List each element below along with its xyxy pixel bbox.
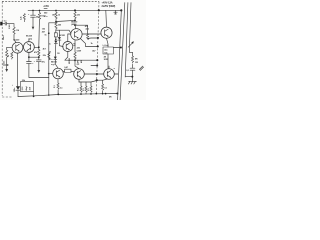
- node Q2 emitter: [28, 52, 30, 58]
- ref label Q7: [71, 20, 78, 26]
- transistor Q1: [7, 42, 23, 53]
- border bottom dashed stub: [2, 96, 12, 98]
- wire Q3 emitter: [65, 52, 68, 61]
- wire output emitter manifold: [79, 81, 97, 83]
- transistor Q5: [74, 60, 85, 82]
- node A: [74, 20, 76, 22]
- svg-text:BC239: BC239: [13, 40, 20, 42]
- value label 4R rotated: [80, 60, 83, 63]
- ref label Q1: [13, 40, 20, 42]
- svg-text:BD132: BD132: [69, 57, 71, 64]
- capacitor C3 electrolytic: [22, 57, 49, 82]
- arrow feedback in: [3, 64, 9, 66]
- capacitor C7: [34, 57, 46, 73]
- node B: [74, 24, 76, 26]
- node rail-R22: [80, 93, 82, 95]
- value label R7 group: [43, 48, 54, 61]
- resistor R1: [13, 24, 20, 36]
- bus line V1: [118, 10, 122, 100]
- svg-text:Wurf.: Wurf.: [2, 35, 5, 40]
- wire Q5 to Q6 base: [84, 73, 103, 75]
- label below box: [104, 56, 109, 61]
- wire ground rail bottom: [18, 94, 117, 97]
- wire Q6 emitter: [97, 79, 108, 80]
- value label D3: [12, 84, 16, 92]
- node rail-bus2: [116, 93, 118, 95]
- label above box: [103, 45, 110, 47]
- node rail-R21: [57, 94, 59, 96]
- trimmer P2: [54, 33, 57, 40]
- transistor Q4: [53, 68, 64, 83]
- resistor R10: [87, 34, 94, 46]
- ref label Q4: [51, 62, 58, 67]
- value label Q5 top: [77, 64, 81, 66]
- node R7-Q4base: [48, 73, 50, 75]
- terminal dot P73: [96, 73, 98, 75]
- wire input to Q1: [14, 36, 16, 43]
- net label +UB: [43, 6, 49, 8]
- wire node B to R10: [75, 25, 88, 33]
- diode D1: [58, 30, 63, 46]
- resistor R12: [74, 10, 81, 19]
- wire bias node to VAS: [56, 20, 75, 21]
- wire R9 to Q7 base: [56, 30, 71, 33]
- value label R3 rotated: [8, 52, 13, 59]
- ground chassis: [128, 81, 136, 84]
- value label cluster mid: [42, 29, 48, 37]
- capacitor C20: [126, 64, 135, 81]
- ref label Q2: [26, 36, 33, 41]
- ref label Q6: [114, 68, 116, 70]
- diode D3: [16, 86, 20, 96]
- resistor R7: [48, 53, 50, 59]
- node rail-R4: [39, 10, 41, 12]
- svg-text:3,5M: 3,5M: [9, 24, 11, 29]
- terminal dot P60: [96, 59, 98, 61]
- bus line V3: [125, 3, 128, 77]
- node R4 junction: [38, 46, 40, 48]
- node R7-rail: [48, 94, 50, 96]
- relay box K1: [103, 47, 113, 54]
- terminal dot P65: [91, 64, 98, 66]
- wire Q7 emitter to P46: [81, 39, 98, 47]
- bus line V2: [120, 3, 125, 100]
- resistor R31: [131, 56, 138, 64]
- resistor R4: [38, 10, 45, 20]
- capacitor C2 electrolytic: [28, 10, 40, 29]
- bus line V4: [129, 3, 131, 53]
- wire chain top: [129, 52, 132, 56]
- svg-text:o.gl.: o.gl.: [51, 64, 55, 66]
- wire box to Q6: [107, 54, 109, 69]
- terminal dot P80: [96, 79, 98, 81]
- terminal dot rail-shield: [98, 9, 100, 11]
- value label 47k: [85, 25, 90, 30]
- wire Q1 emitter down: [17, 53, 19, 86]
- shield boundary dashed vertical: [96, 2, 99, 94]
- node fb-junction: [48, 32, 50, 34]
- resistor R24: [88, 82, 92, 94]
- transistor Q7: [71, 25, 101, 40]
- resistor R23: [83, 82, 87, 94]
- value label 4k7b: [92, 50, 96, 53]
- wire Q2e to R6 node: [29, 56, 40, 58]
- value label 3,5M rotated: [9, 24, 11, 29]
- arrow bus tap: [128, 41, 134, 47]
- speaker terminal arrow: [139, 66, 143, 70]
- resistor R14: [74, 40, 76, 59]
- wire box to bus: [113, 47, 122, 49]
- svg-text:1M: 1M: [16, 30, 19, 32]
- svg-text:L.Celo: L.Celo: [103, 45, 110, 47]
- value label R14: [77, 47, 82, 52]
- transistor Q6: [104, 66, 118, 79]
- border top dashed: [2, 0, 99, 2]
- transistor Q2: [24, 39, 39, 53]
- node rail-C2: [32, 10, 34, 12]
- value label supply rating: [102, 1, 116, 8]
- svg-text:2x25V (50W): 2x25V (50W): [102, 5, 116, 8]
- resistor R3: [5, 47, 8, 72]
- value label edge rotated: [2, 35, 5, 40]
- svg-text:0,5W: 0,5W: [77, 51, 82, 53]
- wire R10 to P40: [88, 37, 98, 40]
- svg-text:+UB1: +UB1: [43, 6, 49, 8]
- value label rail: [109, 95, 112, 98]
- value label 470 rotated: [77, 59, 80, 63]
- wire Q4 base: [49, 73, 53, 75]
- resistor R20: [63, 66, 73, 72]
- value label left edge rotated: [4, 60, 6, 64]
- resistor R6: [34, 50, 40, 57]
- resistor R9: [55, 22, 62, 31]
- wire mid horizontal: [65, 59, 98, 61]
- trimmer box P1: [20, 82, 33, 97]
- svg-text:+40V 0,3A: +40V 0,3A: [102, 1, 113, 4]
- node rail-fb: [95, 93, 97, 95]
- transistor Q8: [101, 10, 112, 47]
- input jack J1: [0, 22, 5, 26]
- fuse F1: [114, 10, 117, 14]
- node chain-B3: [125, 76, 133, 78]
- svg-text:(40W): (40W): [71, 23, 77, 26]
- node rail-R8: [55, 10, 57, 12]
- node rail-R25: [102, 93, 104, 95]
- border left dashed: [1, 2, 3, 96]
- node R8-R9: [55, 21, 57, 23]
- node C: [74, 59, 76, 61]
- terminal dot P40: [97, 37, 99, 39]
- node rail-R12: [74, 9, 76, 11]
- diode D2a: [54, 37, 57, 44]
- wire feedback R7 vertical: [48, 30, 50, 95]
- svg-text:Abgl: Abgl: [25, 86, 28, 91]
- svg-text:(C): (C): [29, 38, 32, 40]
- resistor R25: [102, 80, 108, 93]
- resistor R2: [21, 14, 26, 23]
- terminal dot P46: [97, 45, 99, 47]
- node rail-bus: [120, 9, 122, 11]
- wire +V supply rail: [28, 9, 121, 11]
- resistor R8: [52, 10, 61, 20]
- node rail-Q6e: [105, 93, 107, 95]
- resistor R22: [78, 82, 83, 94]
- svg-text:BC251: BC251: [59, 35, 66, 37]
- svg-text:1W: 1W: [135, 62, 138, 64]
- diode D2b: [54, 44, 58, 68]
- transistor Q3: [63, 34, 73, 52]
- ref label Q3: [59, 35, 66, 37]
- value label diode group: [49, 43, 60, 55]
- node rail-R24: [90, 93, 92, 95]
- value label ca4V: [73, 43, 76, 47]
- resistor R21: [54, 83, 63, 94]
- wire R4 down: [38, 20, 41, 47]
- value label C5 group: [44, 13, 48, 19]
- ref label Q5 rotated: [69, 57, 71, 64]
- node box-rail: [33, 95, 35, 97]
- wire branch C6: [49, 23, 56, 30]
- capacitor C1 input: [4, 21, 14, 26]
